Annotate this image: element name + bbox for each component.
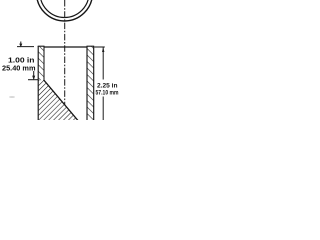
inner circle (top view bore) xyxy=(40,0,89,18)
faint scan smudge xyxy=(9,96,15,98)
right dimension line lower segment xyxy=(102,97,104,121)
outer circle (top view rim) xyxy=(37,0,93,21)
right wall hatched section xyxy=(87,46,94,121)
svg-text:57.10 mm: 57.10 mm xyxy=(96,90,119,97)
svg-text:2.25 in: 2.25 in xyxy=(97,83,118,90)
right wall inner edge xyxy=(86,46,88,120)
right wall outer edge xyxy=(93,46,95,120)
ledge extension line xyxy=(28,79,38,81)
left wall top cap xyxy=(38,45,45,47)
svg-text:25.40 mm: 25.40 mm xyxy=(2,65,36,72)
left extension line at rim level xyxy=(17,46,34,48)
right extension line at rim level xyxy=(94,46,105,48)
slanted surface line (diagonal) xyxy=(44,80,79,121)
left wall outer edge xyxy=(37,46,39,120)
right wall top cap xyxy=(87,45,95,47)
vertical centerline (dash-dot) xyxy=(64,0,66,105)
svg-text:1.00 in: 1.00 in xyxy=(8,58,35,65)
rim line between walls xyxy=(44,46,87,48)
right dimension line upper segment with up arrowhead xyxy=(102,47,104,79)
left wall hatched section xyxy=(38,46,44,80)
down arrow leader (1.00 in) xyxy=(33,71,35,79)
hatched wedge (section below slanted surface) xyxy=(38,80,78,121)
down arrow tick at left end of extension line xyxy=(20,42,22,45)
left wall inner edge xyxy=(43,46,45,80)
